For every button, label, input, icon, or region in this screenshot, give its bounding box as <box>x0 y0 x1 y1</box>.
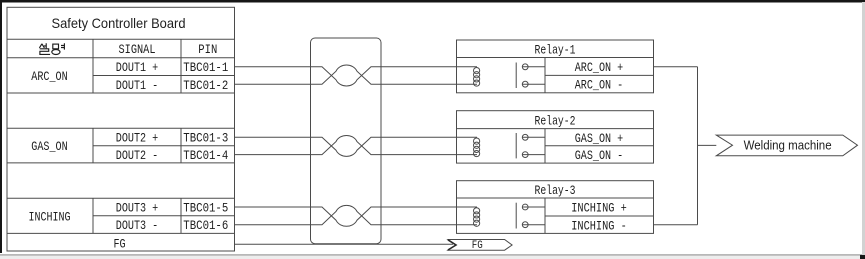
svg-text:Safety Controller Board: Safety Controller Board <box>52 15 186 31</box>
svg-text:DOUT3 -: DOUT3 - <box>116 219 159 233</box>
svg-text:DOUT3 +: DOUT3 + <box>116 202 159 216</box>
relay box Relay-3 <box>457 181 654 234</box>
table GAS section top <box>7 127 235 129</box>
relay K1 contact terminal 2 <box>522 81 545 87</box>
relay K3 contact terminal 1 <box>522 204 545 210</box>
svg-text:DOUT2 -: DOUT2 - <box>116 149 159 163</box>
table row divider DOUT2 <box>93 145 235 147</box>
relay K2 coil <box>474 138 480 157</box>
table INCHING section top <box>7 197 235 199</box>
svg-text:FG: FG <box>472 240 483 252</box>
svg-text:TBC01-1: TBC01-1 <box>183 61 228 75</box>
wire DOUT1- : twisted pair bottom conductor, table to relay coil <box>235 65 478 84</box>
table column divider 1 lower <box>92 198 94 233</box>
relay K2 contact bar <box>515 133 517 158</box>
svg-text:DOUT1 -: DOUT1 - <box>116 79 159 93</box>
svg-text:TBC01-3: TBC01-3 <box>183 132 228 146</box>
relay K1 contact bar <box>515 63 517 89</box>
table column divider 2 lower <box>180 198 182 233</box>
Relay-1 label row divider <box>545 74 654 76</box>
svg-text:Relay-3: Relay-3 <box>535 184 576 198</box>
svg-text:Welding machine: Welding machine <box>744 138 832 153</box>
table ARC section bottom <box>7 92 235 94</box>
svg-text:ARC_ON -: ARC_ON - <box>575 79 624 93</box>
welding machine banner <box>716 135 857 156</box>
table INCHING section bottom / FG row top <box>7 232 235 234</box>
FG banner notch arrow <box>448 240 456 250</box>
svg-text:Relay-2: Relay-2 <box>535 114 576 128</box>
relay K3 coil <box>474 208 480 227</box>
wire Relay-3 output <box>654 224 698 226</box>
Relay-2 title divider <box>457 128 654 130</box>
table column divider 2 upper <box>180 39 182 93</box>
table column divider 2 middle <box>180 128 182 163</box>
svg-text:Relay-1: Relay-1 <box>535 43 576 57</box>
table row divider DOUT1 <box>93 75 235 77</box>
svg-text:INCHING -: INCHING - <box>571 219 627 233</box>
Relay-2 label row divider <box>545 145 654 147</box>
wire Relay-1 output <box>654 66 698 68</box>
wire FG to banner <box>235 243 454 245</box>
svg-text:TBC01-2: TBC01-2 <box>183 79 228 93</box>
relay K2 contact terminal 1 <box>522 134 545 140</box>
relay K2 contact terminal 2 <box>522 152 545 158</box>
Safety Controller Board table outline <box>7 7 235 251</box>
shielded cable boundary <box>311 38 382 244</box>
table header row divider <box>7 57 235 59</box>
wire output bus vertical <box>697 67 699 225</box>
table column divider 1 middle <box>92 128 94 163</box>
wire DOUT1+ : twisted pair top conductor, table to relay coil <box>235 67 478 86</box>
svg-text:FG: FG <box>113 237 125 251</box>
wire DOUT3- : twisted pair bottom conductor, table to relay coil <box>235 205 478 224</box>
Relay-2 label column divider <box>544 129 546 164</box>
table column divider 1 upper <box>92 39 94 93</box>
svg-text:TBC01-6: TBC01-6 <box>183 219 228 233</box>
wire DOUT2- : twisted pair bottom conductor, table to relay coil <box>235 135 478 154</box>
relay box Relay-1 <box>457 40 654 93</box>
Relay-1 title divider <box>457 57 654 59</box>
Relay-3 label column divider <box>544 198 546 233</box>
relay K3 contact terminal 2 <box>522 222 545 228</box>
wire DOUT2+ : twisted pair top conductor, table to relay coil <box>235 137 478 156</box>
Relay-3 title divider <box>457 197 654 199</box>
svg-text:TBC01-4: TBC01-4 <box>183 149 228 163</box>
Relay-1 label column divider <box>544 58 546 93</box>
svg-text:DOUT2 +: DOUT2 + <box>116 132 159 146</box>
svg-text:DOUT1 +: DOUT1 + <box>116 61 159 75</box>
Relay-3 label row divider <box>545 215 654 217</box>
svg-text:SIGNAL: SIGNAL <box>119 43 156 57</box>
svg-text:ARC_ON +: ARC_ON + <box>575 61 624 75</box>
svg-text:GAS_ON: GAS_ON <box>31 140 67 154</box>
table GAS section bottom <box>7 162 235 164</box>
header 설명 (korean: description) drawn as strokes <box>39 43 64 54</box>
svg-text:GAS_ON +: GAS_ON + <box>575 132 624 146</box>
svg-text:ARC_ON: ARC_ON <box>31 70 67 84</box>
svg-text:INCHING: INCHING <box>29 211 71 225</box>
table row divider DOUT3 <box>93 215 235 217</box>
wire DOUT3+ : twisted pair top conductor, table to relay coil <box>235 207 478 226</box>
wire bus to welding machine banner <box>698 144 717 146</box>
FG banner <box>448 240 512 251</box>
table title row divider <box>7 38 235 40</box>
svg-text:INCHING +: INCHING + <box>571 202 627 216</box>
relay K3 contact bar <box>515 203 517 229</box>
relay K1 coil <box>474 68 480 87</box>
svg-text:TBC01-5: TBC01-5 <box>183 202 228 216</box>
svg-text:GAS_ON -: GAS_ON - <box>575 149 624 163</box>
svg-text:PIN: PIN <box>198 43 217 57</box>
relay K1 contact terminal 1 <box>522 64 545 70</box>
relay box Relay-2 <box>457 111 654 163</box>
